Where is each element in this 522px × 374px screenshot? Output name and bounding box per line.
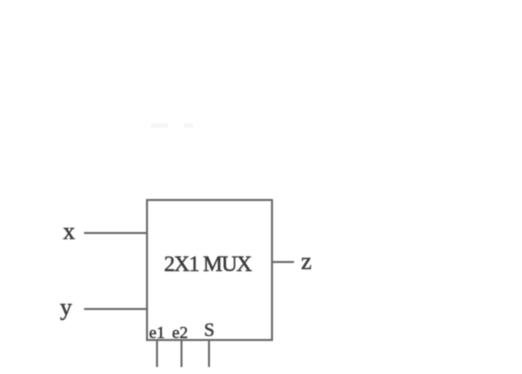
svg-text:2X1 MUX: 2X1 MUX (164, 251, 252, 276)
wire pin e2 (181, 340, 183, 367)
svg-text:y: y (60, 295, 72, 321)
wire y input (84, 308, 147, 310)
svg-text:e2: e2 (172, 323, 188, 342)
svg-text:x: x (63, 219, 75, 245)
wire pin e1 (156, 340, 158, 367)
wire pin S (208, 340, 210, 367)
svg-text:z: z (301, 249, 312, 275)
mux body U1 (147, 200, 272, 340)
wire z output (272, 261, 294, 263)
svg-text:e1: e1 (149, 323, 165, 342)
wire x input (84, 232, 147, 234)
svg-text:S: S (204, 320, 215, 341)
